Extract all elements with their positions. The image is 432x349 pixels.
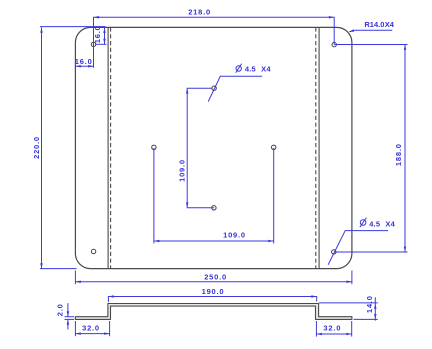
dimension 250.0 bottom [75, 271, 352, 285]
svg-text:14.0: 14.0 [365, 295, 374, 313]
profile view (section) [75, 304, 352, 320]
svg-text:32.0: 32.0 [82, 323, 100, 332]
svg-text:2.0: 2.0 [55, 303, 64, 316]
dimension 16.0 horizontal (top-left hole from left edge) [75, 65, 93, 67]
svg-text:4.5X4: 4.5X4 [245, 64, 271, 73]
corner radius leader R14.0 X4 [349, 30, 392, 32]
svg-text:188.0: 188.0 [394, 143, 403, 166]
svg-text:109.0: 109.0 [223, 230, 246, 239]
svg-text:32.0: 32.0 [323, 324, 341, 333]
bend line right solid [318, 27, 320, 268]
svg-text:109.0: 109.0 [178, 159, 187, 182]
bend line left solid [107, 27, 109, 268]
dimension 2.0 (profile thickness, left) [65, 303, 75, 329]
dimension 32.0 (profile left flange) [75, 321, 109, 336]
hole center-top [212, 86, 216, 90]
dimension 218.0 top [94, 17, 335, 67]
plate outline [75, 27, 352, 268]
hole center-right [272, 145, 276, 149]
hole bottom-right [332, 250, 336, 254]
dimension 109.0 vertical (hole pattern) [187, 88, 214, 208]
dimension 220.0 left [40, 27, 106, 269]
svg-text:R14.0X4: R14.0X4 [364, 20, 394, 29]
dimension 109.0 horizontal (hole pattern) [154, 148, 274, 243]
dimension 14.0 (profile height, right) [319, 297, 378, 320]
hole top-left [91, 42, 95, 46]
svg-text:16.0: 16.0 [75, 57, 93, 66]
svg-text:4.5X4: 4.5X4 [369, 219, 395, 228]
hole callout top (diameter 4.5 X4) [208, 76, 262, 101]
hole center-bottom [212, 206, 216, 210]
svg-text:218.0: 218.0 [188, 8, 211, 17]
dimension 188.0 right [334, 45, 408, 253]
svg-text:190.0: 190.0 [202, 287, 225, 296]
svg-text:220.0: 220.0 [32, 136, 41, 159]
bend line left hidden (dashed) [110, 27, 112, 268]
hole center-left [152, 145, 156, 149]
svg-text:16.0: 16.0 [93, 25, 102, 43]
hole top-right [332, 42, 336, 46]
dimension 32.0 (profile right flange) [316, 321, 351, 337]
hole bottom-left [91, 249, 95, 253]
bend line right hidden (dashed) [315, 27, 317, 268]
dimension 16.0 vertical (top-left hole from top edge) [96, 27, 107, 44]
hole callout bottom-right (diameter 4.5 X4) [328, 231, 388, 265]
dimension 190.0 (profile top width) [108, 297, 316, 303]
svg-text:250.0: 250.0 [204, 272, 227, 281]
